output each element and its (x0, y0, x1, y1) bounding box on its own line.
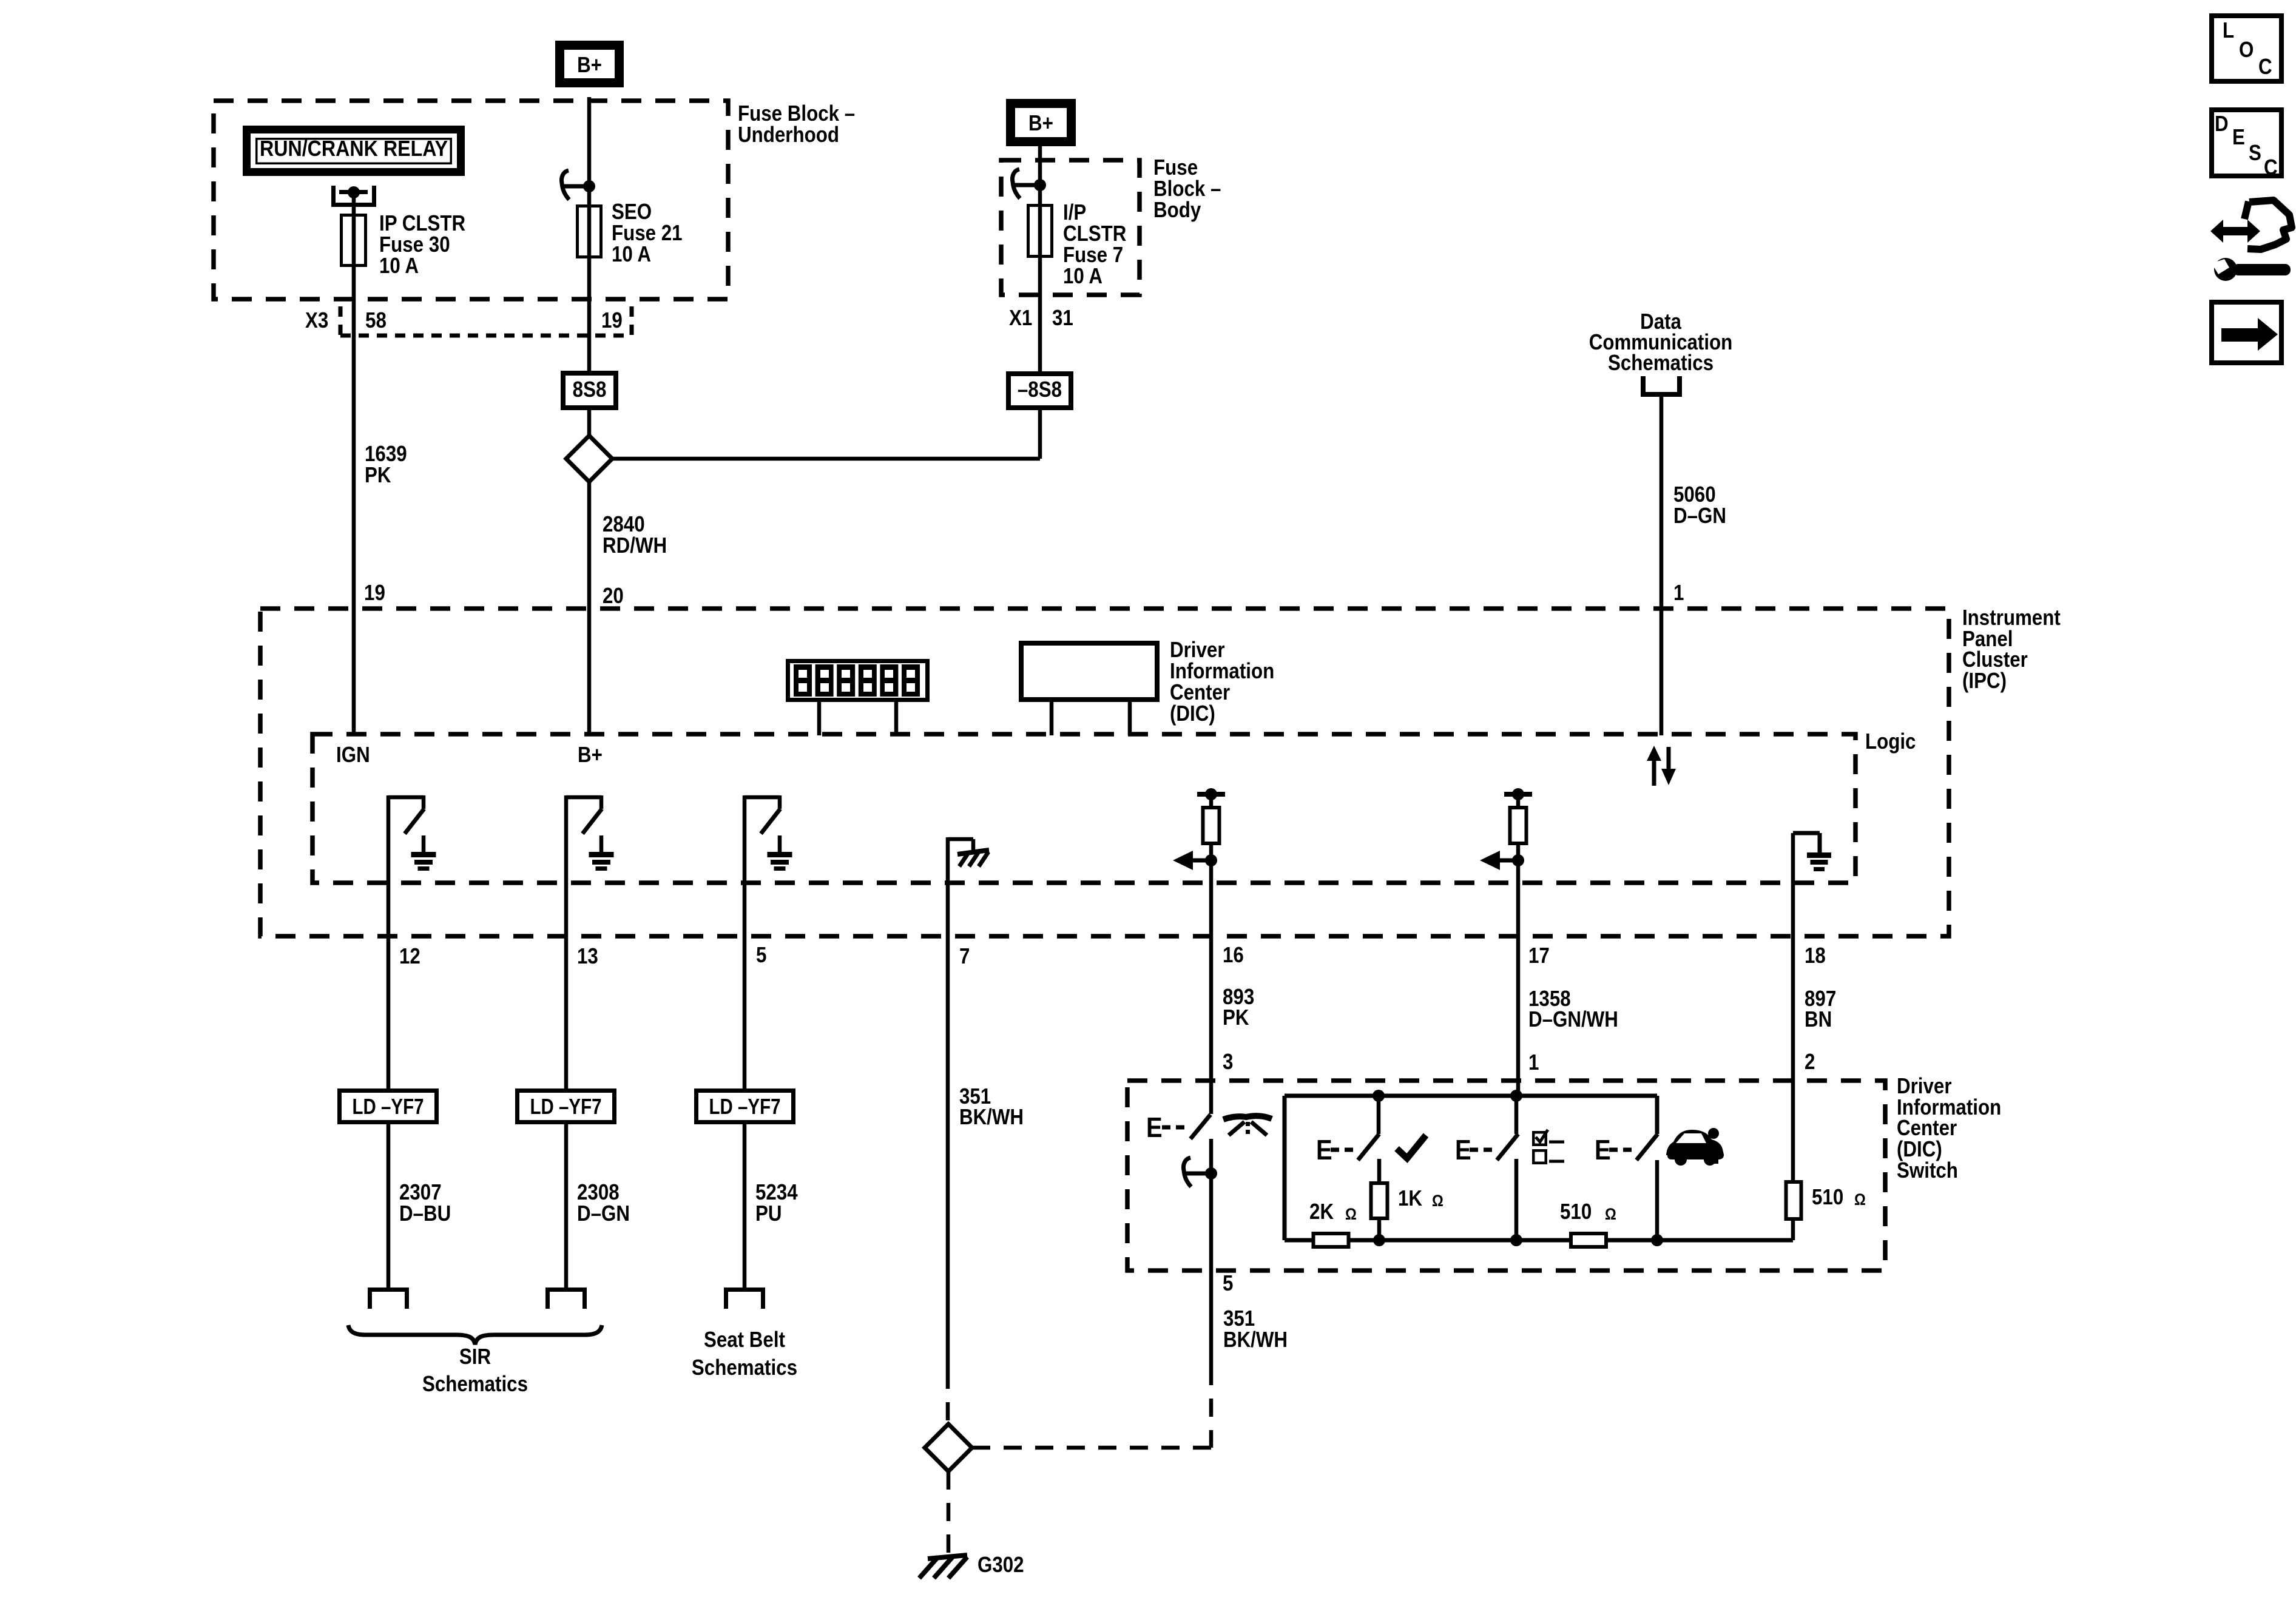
resistor R 510 ohm right (1791, 1178, 1795, 1183)
resistor R 1K ohm (1371, 1183, 1388, 1218)
svg-text:D: D (2215, 112, 2229, 137)
connector X3 dotted strip (340, 334, 632, 338)
DIC switch blade pin 3 (1190, 1115, 1210, 1139)
svg-text:–8S8: –8S8 (1018, 377, 1062, 402)
check mark icon (1397, 1135, 1426, 1158)
svg-text:C: C (2264, 155, 2278, 180)
svg-text:16: 16 (1223, 943, 1244, 968)
splice box 8S8 (563, 373, 616, 408)
svg-text:B+: B+ (577, 53, 602, 78)
wire 8S8 to splice diamond (587, 410, 592, 438)
wire splice to IPC pin 20 circuit 2840 RD/WH (587, 482, 592, 734)
svg-text:2: 2 (1805, 1050, 1815, 1075)
wire fuse 7 to -8S8 (1038, 258, 1042, 371)
wire LD-YF7 to seat belt (743, 1124, 747, 1288)
svg-text:5: 5 (1223, 1271, 1233, 1296)
svg-text:58: 58 (365, 308, 387, 333)
circuit breaker hook at fuse 7 (1012, 169, 1020, 198)
icon box DESC (2212, 110, 2281, 176)
power symbol B+ underhood (560, 46, 620, 83)
svg-text:X1: X1 (1009, 306, 1032, 331)
off page half box pin12 (368, 1288, 409, 1292)
wire pin 5 to LD-YF7 (743, 883, 747, 1088)
wire DIC pin5 ground dashed (1209, 1271, 1214, 1367)
connector X3 pin 58 separator (339, 306, 343, 336)
wire fuse 21 to splice 8S8 (587, 267, 592, 371)
logic dashed box (312, 734, 1855, 883)
DIC module rectangle (1021, 643, 1157, 700)
svg-text:E: E (1146, 1112, 1163, 1143)
logic output arrow pin 17 (1512, 854, 1524, 866)
serial data up down arrows (1652, 760, 1656, 786)
svg-text:(IPC): (IPC) (1962, 669, 2007, 694)
logic pull-up resistor pin 16 (1197, 792, 1225, 797)
svg-text:D–GN/WH: D–GN/WH (1528, 1007, 1618, 1032)
svg-text:13: 13 (577, 944, 598, 969)
svg-text:LD –YF7: LD –YF7 (709, 1094, 781, 1119)
instrument panel cluster dashed box (260, 609, 1949, 936)
svg-text:SIR: SIR (459, 1345, 491, 1369)
check switch stub and blade (1377, 1096, 1381, 1134)
svg-text:19: 19 (601, 308, 623, 333)
fuse block body dashed box (1001, 160, 1140, 295)
car switch stub and blade (1655, 1096, 1660, 1134)
brace SIR schematics (348, 1325, 602, 1345)
wire pin 17 to DIC switch pin 1 circuit 1358 D-GN/WH (1516, 883, 1521, 1096)
node top junction menu switch (1510, 1090, 1522, 1102)
wire car switch to bottom rail (1655, 1160, 1660, 1240)
svg-text:510: 510 (1812, 1185, 1843, 1210)
logic chassis ground pin 7 (946, 837, 950, 883)
svg-text:D–GN: D–GN (577, 1201, 630, 1226)
svg-text:BK/WH: BK/WH (959, 1105, 1024, 1130)
wire LD-YF7 to SIR 1 (387, 1124, 391, 1288)
svg-text:PK: PK (365, 463, 391, 488)
wire serial data circuit 5060 D-GN (1660, 397, 1664, 735)
wire pin 13 to LD-YF7 (564, 883, 569, 1088)
svg-text:5: 5 (756, 943, 766, 968)
option box LD-YF7 pin12 (340, 1091, 437, 1122)
svg-text:IGN: IGN (336, 743, 370, 768)
svg-text:1K: 1K (1398, 1186, 1423, 1211)
circuit breaker hook at fuse 21 (561, 170, 569, 200)
svg-text:1: 1 (1673, 581, 1684, 606)
wire menu switch to bottom rail (1514, 1159, 1519, 1240)
svg-text:E: E (2232, 125, 2245, 150)
svg-text:O: O (2239, 38, 2254, 62)
menu list icon (1533, 1132, 1546, 1145)
svg-text:RUN/CRANK RELAY: RUN/CRANK RELAY (260, 136, 448, 161)
icon box right arrow (2212, 302, 2281, 363)
chassis ground prongs pin 7 (957, 850, 989, 854)
icon box LOC (2212, 16, 2281, 81)
svg-text:Seat Belt: Seat Belt (704, 1328, 785, 1352)
svg-text:LD –YF7: LD –YF7 (530, 1094, 602, 1119)
svg-text:Schematics: Schematics (422, 1372, 528, 1397)
wire pin3 to breaker (1209, 1139, 1214, 1271)
svg-text:BN: BN (1805, 1007, 1832, 1032)
logic ground pin 18 (1791, 833, 1795, 883)
wire pin 12 to LD-YF7 (387, 883, 391, 1088)
svg-text:Ω: Ω (1432, 1192, 1443, 1210)
svg-text:G302: G302 (977, 1553, 1024, 1578)
svg-text:X3: X3 (305, 308, 328, 333)
wire LD-YF7 to SIR 2 (564, 1124, 569, 1288)
off page half box pin5 (724, 1288, 765, 1292)
svg-text:10 A: 10 A (1063, 264, 1102, 289)
svg-text:Ω: Ω (1345, 1206, 1357, 1224)
ground G302 symbol (928, 1555, 967, 1559)
svg-text:PK: PK (1223, 1005, 1249, 1030)
fuse F30 IP CLSTR Fuse 30 10A (352, 214, 356, 267)
wire pin 16 to DIC switch pin 3 circuit 893 PK (1209, 883, 1214, 1114)
circuit breaker hook DIC (1183, 1158, 1191, 1187)
resistor 1K stub (1377, 1159, 1382, 1181)
resistor R 2K ohm (1314, 1234, 1349, 1247)
wire B+ to breaker (587, 97, 592, 186)
wire relay to fuse 30 (352, 192, 356, 214)
wire pin7 dashed to splice (946, 1371, 950, 1424)
svg-text:PU: PU (755, 1201, 782, 1226)
svg-text:12: 12 (399, 944, 420, 969)
wire 1K to bottom rail (1377, 1220, 1382, 1240)
logic output arrow pin 16 (1205, 854, 1217, 866)
svg-text:19: 19 (364, 581, 385, 606)
logic switch to ground pin 13 (564, 795, 569, 883)
svg-text:C: C (2258, 55, 2272, 79)
fuse block underhood dashed box (214, 101, 728, 299)
logic switch to ground pin 12 (387, 795, 391, 883)
menu switch stub and blade (1514, 1096, 1519, 1134)
splice box -8S8 (1008, 374, 1071, 408)
svg-text:8S8: 8S8 (573, 377, 607, 402)
svg-text:Schematics: Schematics (1608, 351, 1714, 376)
svg-text:Switch: Switch (1897, 1158, 1958, 1183)
relay contact symbol (331, 186, 336, 207)
svg-text:L: L (2223, 18, 2234, 43)
svg-text:510: 510 (1560, 1200, 1592, 1224)
driver information center switch dashed box (1127, 1081, 1885, 1271)
DIC switch internal box (1285, 1094, 1657, 1098)
logic pull-up resistor pin 17 (1504, 792, 1532, 797)
icon double arrow wrench (2210, 220, 2260, 243)
trip display icon (1223, 1116, 1272, 1119)
svg-text:BK/WH: BK/WH (1223, 1328, 1288, 1352)
option box LD-YF7 pin5 (697, 1091, 794, 1122)
svg-text:RD/WH: RD/WH (603, 533, 667, 558)
svg-text:Ω: Ω (1854, 1191, 1866, 1209)
svg-text:17: 17 (1528, 943, 1550, 968)
svg-text:31: 31 (1052, 306, 1073, 331)
svg-text:2K: 2K (1309, 1200, 1334, 1224)
splice diamond S1 (566, 436, 612, 482)
svg-text:B+: B+ (578, 743, 603, 768)
svg-text:D–BU: D–BU (399, 1201, 451, 1226)
svg-text:3: 3 (1223, 1050, 1233, 1075)
svg-text:1: 1 (1528, 1050, 1539, 1075)
fuse F21 SEO Fuse 21 10A (587, 186, 592, 267)
relay RUN/CRANK RELAY box (247, 130, 461, 172)
wire B+ to breaker body (1038, 146, 1042, 185)
resistor R 510 ohm (1571, 1234, 1606, 1247)
svg-text:Underhood: Underhood (738, 123, 839, 147)
off-page connector bracket (1641, 376, 1646, 394)
svg-text:(DIC): (DIC) (1170, 701, 1215, 726)
fuse F7 I/P CLSTR Fuse 7 10A (1038, 185, 1042, 258)
svg-text:Body: Body (1153, 198, 1201, 223)
display icon legs (817, 702, 822, 735)
svg-text:20: 20 (603, 584, 624, 609)
wire splice to G302 dashed (947, 1471, 951, 1553)
node top junction check switch (1373, 1090, 1385, 1102)
DIC module legs (1050, 702, 1054, 735)
svg-text:LD –YF7: LD –YF7 (353, 1094, 424, 1119)
svg-text:D–GN: D–GN (1673, 504, 1726, 528)
svg-text:S: S (2249, 141, 2261, 166)
svg-text:10 A: 10 A (612, 242, 651, 267)
option box LD-YF7 pin13 (518, 1091, 615, 1122)
power symbol B+ body (1011, 104, 1072, 142)
svg-text:E: E (1316, 1135, 1332, 1166)
svg-text:B+: B+ (1028, 111, 1053, 136)
DIC seven segment display icon (788, 661, 928, 700)
off page half box pin13 (545, 1288, 587, 1292)
svg-text:Logic: Logic (1865, 729, 1916, 754)
svg-text:18: 18 (1805, 943, 1826, 968)
svg-text:E: E (1455, 1135, 1471, 1166)
logic switch to ground pin 5 (743, 795, 747, 883)
wire splice diamond to -8S8 branch (612, 457, 1040, 461)
svg-text:Schematics: Schematics (692, 1355, 797, 1380)
svg-text:10 A: 10 A (379, 254, 419, 278)
wire pin 18 to DIC switch pin 2 circuit 897 BN (1791, 883, 1795, 1180)
wire 510 to bottom rail (1791, 1221, 1795, 1240)
car info icon (1666, 1130, 1724, 1166)
svg-text:7: 7 (959, 944, 970, 969)
wire fuse 30 to IPC pin 19 (352, 267, 356, 734)
svg-text:Ω: Ω (1605, 1206, 1616, 1224)
splice diamond S2 (925, 1424, 972, 1471)
svg-text:E: E (1595, 1135, 1611, 1166)
wire pin 7 ground circuit 351 (946, 883, 950, 1371)
